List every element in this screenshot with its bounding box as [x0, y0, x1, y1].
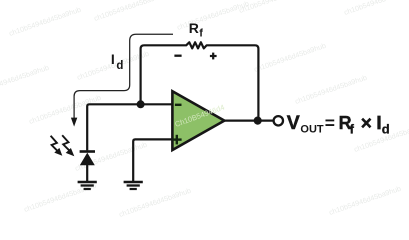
wire: inverting input from photodiode corner to op-amp	[87, 104, 172, 150]
watermark tile 6	[0, 63, 50, 96]
svg-text:d: d	[382, 122, 390, 137]
svg-text:ch10b54946d45ba9hub: ch10b54946d45ba9hub	[253, 41, 327, 74]
svg-text:ch10b54946d45ba9hub: ch10b54946d45ba9hub	[74, 140, 148, 173]
wire: feedback loop with resistor Rf zigzag (left vertical x=140.6, top y=45.3, right vertical x=258.4 down to output)	[141, 42, 259, 120]
svg-text:d: d	[116, 60, 123, 72]
photodiode D1 cathode bar	[80, 150, 95, 153]
svg-text:=: =	[325, 113, 335, 133]
watermark tile 3	[176, 0, 250, 32]
svg-text:OUT: OUT	[300, 123, 324, 135]
label Id (current)	[111, 51, 124, 72]
svg-text:ch10b54946d45ba9hub: ch10b54946d45ba9hub	[8, 5, 82, 38]
watermark tile 15	[328, 184, 402, 217]
svg-text:I: I	[377, 113, 382, 133]
svg-text:ch10b54946d45ba9hub: ch10b54946d45ba9hub	[328, 184, 402, 217]
polarity plus sign under right side of Rf	[210, 53, 217, 60]
svg-text:ch10b54946d45ba9hub: ch10b54946d45ba9hub	[28, 93, 102, 126]
label Rf (resistor reference)	[189, 20, 204, 39]
svg-text:f: f	[350, 121, 355, 136]
watermark tile 11	[74, 140, 148, 173]
op-amp inverting input minus symbol	[175, 104, 182, 106]
wire: non-inverting input to ground	[133, 139, 172, 181]
svg-text:ch10b54946d45ba9hub: ch10b54946d45ba9hub	[118, 186, 192, 219]
output terminal open circle	[274, 116, 283, 125]
ground symbol under photodiode	[78, 182, 97, 189]
svg-text:I: I	[111, 51, 115, 67]
svg-text:ch10b54946d45ba9hub: ch10b54946d45ba9hub	[176, 0, 250, 32]
op-amp U1 (green triangle)	[172, 91, 224, 150]
watermark tile 1	[8, 5, 82, 38]
svg-text:ch10b54946d45ba9hub: ch10b54946d45ba9hub	[294, 73, 368, 106]
svg-text:ch10b54946d45ba9hub: ch10b54946d45ba9hub	[0, 63, 50, 96]
watermark tile 8	[253, 41, 327, 74]
watermark tile 13	[23, 181, 97, 214]
light arrow 2 (photon hitting photodiode)	[62, 135, 74, 156]
watermark on op-amp	[174, 103, 226, 129]
node: output junction dot	[254, 117, 262, 125]
svg-text:R: R	[189, 20, 199, 36]
label Vout = Rf x Id	[287, 112, 390, 136]
watermark tile 10	[294, 73, 368, 106]
svg-text:V: V	[287, 112, 300, 134]
watermark tile 9	[28, 93, 102, 126]
polarity minus sign under left side of Rf	[174, 55, 181, 57]
op-amp non-inverting input plus symbol	[172, 135, 182, 145]
photodiode D1 triangle (anode, pointing up)	[80, 153, 95, 166]
watermark tile 4	[238, 0, 312, 15]
svg-text:ch10b54946d45ba9hub: ch10b54946d45ba9hub	[343, 0, 409, 17]
light arrow 1 (photon hitting photodiode)	[51, 136, 63, 156]
svg-text:×: ×	[361, 114, 372, 135]
svg-text:ch10b54946d45ba9hub: ch10b54946d45ba9hub	[93, 0, 167, 23]
watermark tile 5	[343, 0, 409, 17]
watermark tile 12	[353, 121, 409, 154]
watermark tile 2	[93, 0, 167, 23]
watermark tile 7	[76, 49, 150, 82]
ground symbol at non-inverting input	[124, 182, 143, 189]
annotation: Id current path thin line with arrowhead	[71, 34, 173, 126]
wire: op-amp output	[224, 119, 274, 121]
watermark tile 14	[118, 186, 192, 219]
node: junction dot at inverting input	[137, 100, 145, 108]
wire: photodiode anode to ground	[86, 165, 88, 181]
svg-text:f: f	[199, 28, 203, 40]
svg-text:ch10b54946d45ba9hub: ch10b54946d45ba9hub	[238, 0, 312, 15]
